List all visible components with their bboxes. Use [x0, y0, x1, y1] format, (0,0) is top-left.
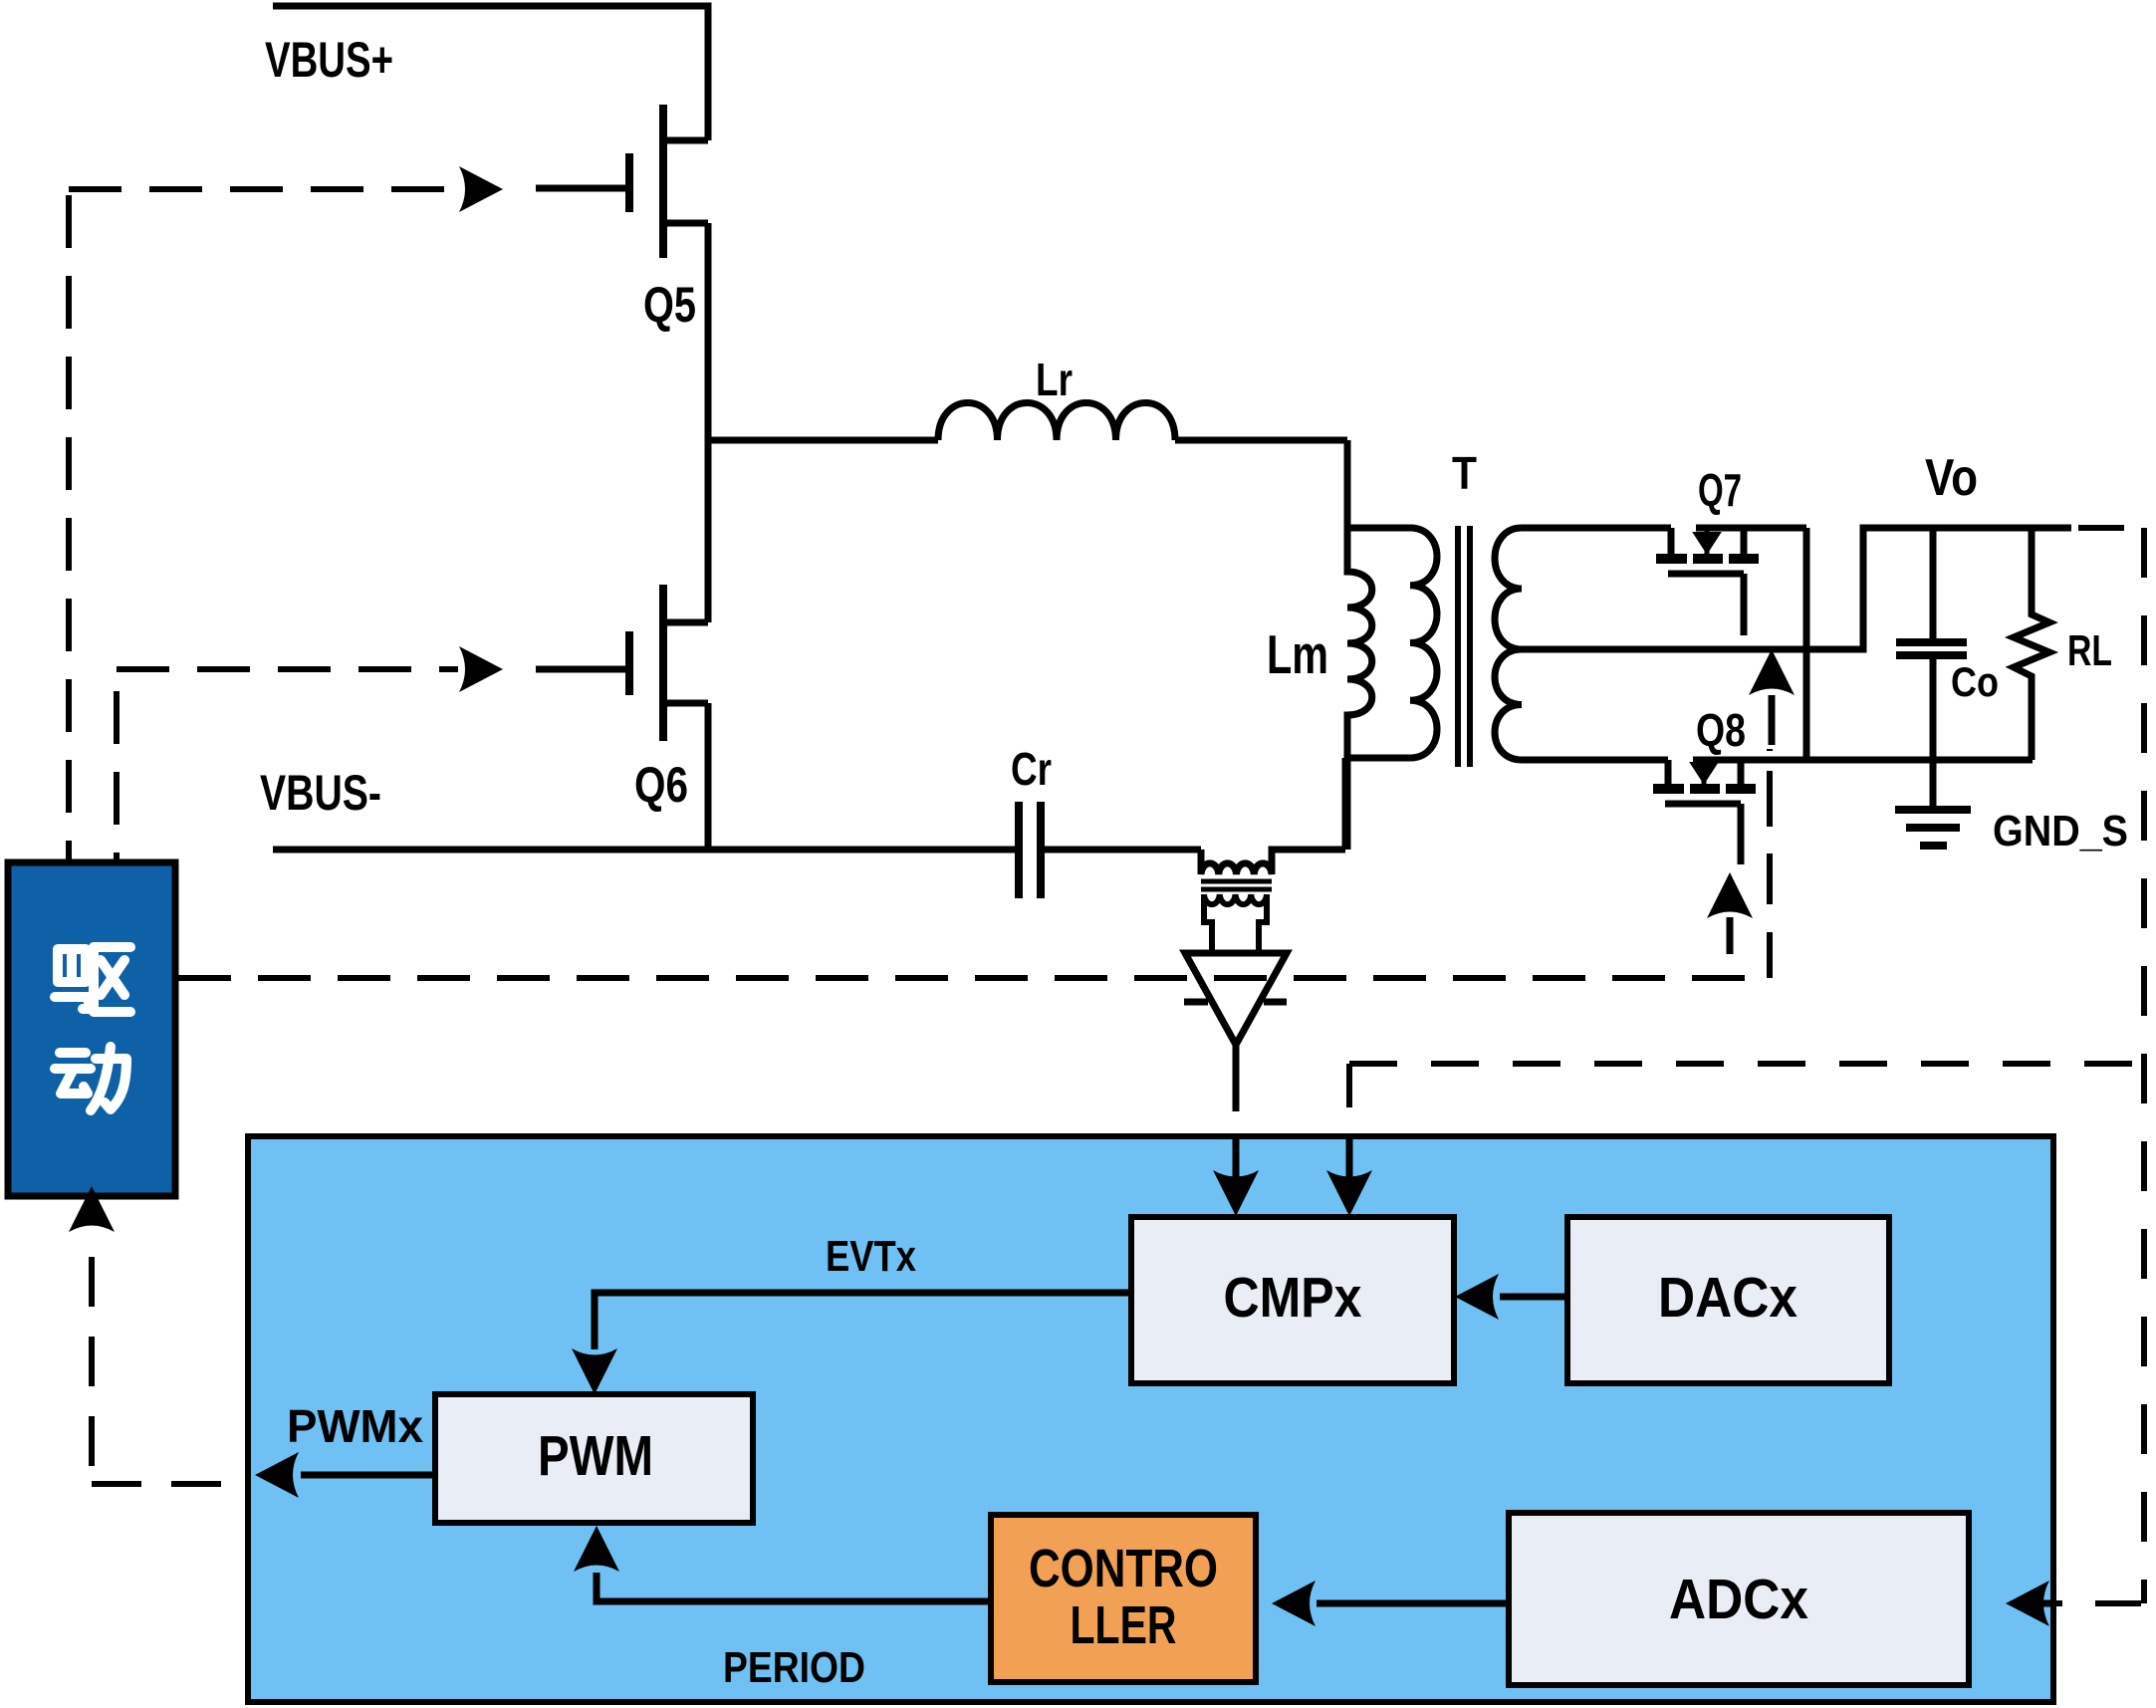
wire PERIOD controller to PWM [597, 1573, 991, 1601]
wire Q7 source down across centertap to rail [1803, 528, 1810, 761]
wire VBUS- bottom rail to Cr [273, 847, 1016, 854]
svg-text:ADCx: ADCx [1669, 1568, 1808, 1631]
svg-text:Lr: Lr [1036, 354, 1073, 405]
node center tap wire to Vo [1522, 528, 2071, 649]
transistor Q8 [1653, 760, 1756, 864]
arrow shaft Q7 gate [1769, 695, 1776, 745]
arrow into ADCx from Vo sense [2006, 1581, 2049, 1626]
block CONTROLLER [991, 1515, 1256, 1682]
transistor Q7 [1656, 528, 1806, 635]
arrow up to Q7 gate [1749, 649, 1795, 695]
arrow into CMPx right top [1326, 1170, 1372, 1216]
wire dashed gate drive Q6 [114, 691, 120, 862]
current transformer secondary [1204, 894, 1267, 904]
svg-text:Q5: Q5 [643, 277, 696, 333]
char 动 (vector strokes) [55, 1047, 126, 1110]
capacitor Cr [1019, 802, 1201, 898]
wire ADCx to controller [1317, 1600, 1509, 1607]
wire dashed comparator reference to CMPx [1349, 1061, 2144, 1067]
svg-text:T: T [1452, 447, 1477, 499]
driver block 驱动 [8, 862, 175, 1196]
wire Q6 source down to VBUS- rail [705, 703, 712, 850]
current transformer core [1201, 879, 1272, 884]
wire dashed Vo sense [2078, 525, 2141, 531]
wire comparator output [1233, 1045, 1240, 1111]
wire secondary ground rail [1746, 757, 2033, 764]
svg-text:Q7: Q7 [1698, 464, 1742, 516]
wire comparator into CMPx [1233, 1136, 1240, 1177]
svg-text:VBUS-: VBUS- [260, 765, 381, 821]
svg-text:VBUS+: VBUS+ [265, 32, 393, 88]
block ADCx [1509, 1513, 1969, 1685]
arrow into CONTROLLER from ADCx [1272, 1581, 1316, 1626]
svg-text:Vo: Vo [1925, 449, 1978, 507]
arrow shaft Q8 gate [1727, 917, 1734, 954]
svg-text:Q6: Q6 [634, 757, 688, 813]
arrow into CMPx from DACx [1455, 1274, 1499, 1320]
svg-text:Q8: Q8 [1696, 704, 1746, 756]
svg-text:LLER: LLER [1071, 1595, 1177, 1655]
capacitor Co [1896, 528, 1967, 760]
wire Lr to transformer [1175, 437, 1347, 444]
wire dashed driver to SR gates [178, 975, 1770, 981]
resistor RL [2014, 528, 2049, 760]
wire CT to transformer bottom [1342, 758, 1349, 850]
svg-text:EVTx: EVTx [826, 1232, 916, 1281]
transformer T core [1455, 526, 1461, 767]
transistor Q5 [536, 105, 708, 258]
svg-text:GND_S: GND_S [1993, 807, 2128, 855]
arrow PWMx into left edge [255, 1452, 299, 1498]
block PWM [435, 1394, 753, 1523]
svg-text:Cr: Cr [1011, 743, 1052, 795]
inductor Lm on primary vertical [1347, 440, 1372, 850]
wire dashed drive vertical left [66, 195, 72, 862]
wire PWMx out of PWM [301, 1472, 435, 1479]
char 驱 (vector strokes) [55, 947, 130, 1012]
svg-text:RL: RL [2067, 626, 2112, 675]
transistor Q6 [536, 585, 708, 741]
ground GND_S [1895, 760, 1971, 846]
svg-text:PWM: PWM [538, 1424, 653, 1488]
wire dashed ref into CMPx (solid tail) [1346, 1135, 1353, 1177]
wire EVTx CMPx to PWM [595, 1293, 1131, 1349]
svg-text:PWMx: PWMx [287, 1400, 423, 1452]
block CMPx [1131, 1217, 1454, 1383]
svg-text:Co: Co [1951, 658, 1999, 705]
wire VBUS+ top rail [273, 6, 708, 140]
wire dashed PWM out to driver [89, 1257, 95, 1484]
wire dashed gate drive Q5 [69, 186, 458, 192]
arrow into Q6 gate [459, 646, 503, 692]
transformer T secondary bottom winding [1495, 649, 1668, 760]
arrowheads (stealth) [69, 166, 2049, 1626]
arrow into PWM bottom (PERIOD) [574, 1526, 619, 1572]
inductor Lr [938, 403, 1175, 441]
svg-text:CONTRO: CONTRO [1029, 1539, 1218, 1598]
current transformer primary [1201, 850, 1345, 874]
svg-text:PERIOD: PERIOD [723, 1643, 865, 1692]
arrow into CMPx left top [1213, 1170, 1259, 1216]
wire DACx to CMPx [1500, 1294, 1567, 1301]
transformer T secondary top winding [1495, 528, 1671, 649]
dashes near Q8 gate [1767, 771, 1773, 785]
arrow into driver bottom [69, 1186, 115, 1232]
arrow into Q5 gate [459, 166, 503, 212]
control box (blue) [248, 1136, 2053, 1702]
svg-text:DACx: DACx [1658, 1266, 1797, 1330]
svg-text:Lm: Lm [1267, 623, 1328, 685]
wire Q5 source to Q6 drain (half-bridge midpoint) [705, 223, 712, 622]
comparator U1 (current sense amp) [1185, 953, 1287, 1045]
dashed control lines [69, 189, 2144, 1603]
svg-text:CMPx: CMPx [1224, 1266, 1362, 1330]
transformer T primary winding [1347, 528, 1437, 758]
arrow into PWM top (EVTx) [572, 1348, 617, 1394]
wire ADCx input [2043, 1600, 2053, 1607]
block DACx [1567, 1217, 1889, 1383]
arrow up to Q8 gate [1707, 872, 1753, 918]
wire midpoint to Lr [708, 437, 938, 444]
